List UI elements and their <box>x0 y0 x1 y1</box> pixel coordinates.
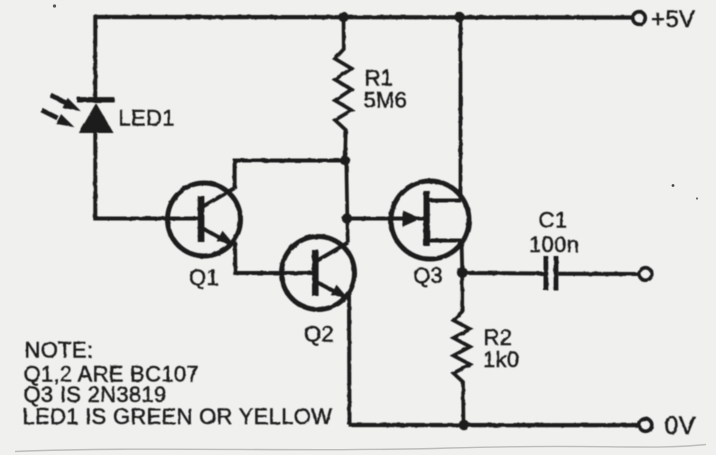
wire: 0V bottom rail <box>349 423 639 427</box>
svg-text:Q2: Q2 <box>304 322 334 347</box>
wire: Q1 collector up and right to R1 bottom <box>235 161 345 189</box>
terminal: output open circle <box>639 268 652 281</box>
wire: LED1 to Q1 base <box>95 131 199 219</box>
wire: drain vertical from top rail <box>459 17 463 201</box>
transistor Q3 (JFET) <box>347 181 469 259</box>
LED1 light arrow 2 <box>42 110 75 127</box>
node: R2 bottom junction <box>459 420 470 431</box>
wire: Q1 emitter down and right to Q2 base <box>235 242 313 273</box>
wire: Q2 emitter down to 0V rail <box>347 295 352 425</box>
svg-text:NOTE:: NOTE: <box>25 338 94 363</box>
speck top left <box>53 4 56 7</box>
wire: junction to C1 <box>462 271 544 276</box>
Q3 channel bar <box>424 191 430 246</box>
svg-text:5M6: 5M6 <box>364 88 408 113</box>
svg-text:C1: C1 <box>539 208 568 233</box>
node: R1 top junction <box>338 12 348 22</box>
faint crease at bottom <box>15 445 706 452</box>
transistor Q2 <box>282 237 355 310</box>
Q3 source lead <box>429 239 461 243</box>
speck right 1 <box>672 184 675 187</box>
svg-text:+5V: +5V <box>651 6 695 33</box>
LED1 cathode bar <box>77 97 114 102</box>
wire: column down to Q2 collector <box>346 161 348 243</box>
node: Q3 drain top junction <box>454 12 464 22</box>
node: source junction <box>457 267 468 278</box>
speck right 2 <box>696 197 698 199</box>
node: Q3 gate junction <box>342 213 352 223</box>
svg-text:0V: 0V <box>665 412 696 440</box>
node: R1 bottom junction <box>340 156 350 166</box>
transistor Q1 <box>168 183 241 256</box>
wire: gate lead from junction <box>347 217 424 221</box>
terminal: 0V open circle <box>639 419 652 432</box>
svg-text:1k0: 1k0 <box>483 347 519 372</box>
LED1 light arrow 1 <box>51 95 82 111</box>
Q3 gate arrowhead <box>403 210 422 226</box>
svg-text:Q1: Q1 <box>189 265 219 290</box>
wire: source vertical to junction <box>460 241 465 273</box>
svg-text:100n: 100n <box>529 232 579 257</box>
wire: C1 to output terminal <box>559 272 639 276</box>
terminal: +5V open circle <box>633 12 646 25</box>
wire: left rail down to LED1 <box>93 15 97 99</box>
resistor R2 <box>454 273 471 426</box>
svg-text:LED1: LED1 <box>119 106 175 131</box>
LED1 triangle <box>79 103 114 133</box>
capacitor C1 plates <box>544 256 559 291</box>
wire: +5V top rail <box>95 15 633 20</box>
resistor R1 <box>335 17 352 161</box>
svg-text:Q3: Q3 <box>413 263 443 288</box>
Q3 drain lead <box>429 199 461 203</box>
svg-text:LED1 IS GREEN OR YELLOW: LED1 IS GREEN OR YELLOW <box>23 404 333 429</box>
